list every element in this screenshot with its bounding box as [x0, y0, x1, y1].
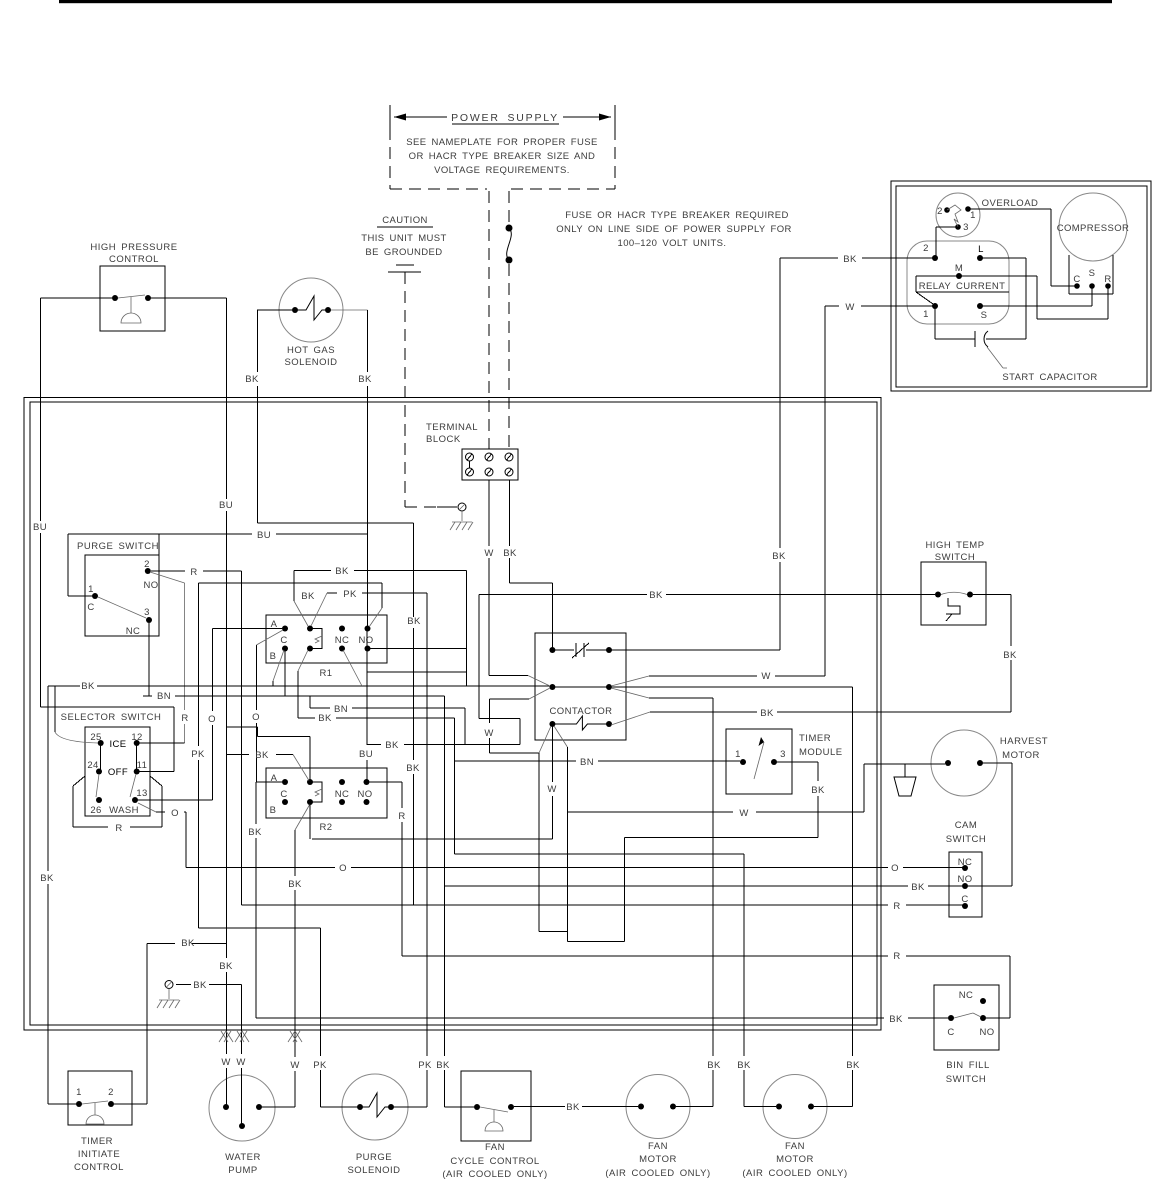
svg-text:MODULE: MODULE	[799, 747, 843, 758]
svg-text:C: C	[280, 635, 287, 646]
svg-text:BK: BK	[406, 763, 420, 774]
svg-text:BU: BU	[33, 522, 47, 533]
svg-text:S: S	[1089, 268, 1096, 279]
svg-text:SWITCH: SWITCH	[946, 1074, 986, 1085]
svg-text:NC: NC	[335, 789, 350, 800]
svg-text:BK: BK	[649, 590, 663, 601]
svg-text:BK: BK	[843, 254, 857, 265]
svg-text:1: 1	[88, 584, 94, 595]
svg-text:FUSE OR HACR TYPE BREAKER REQU: FUSE OR HACR TYPE BREAKER REQUIRED	[565, 210, 789, 221]
svg-text:CYCLE CONTROL: CYCLE CONTROL	[450, 1156, 539, 1167]
svg-text:COMPRESSOR: COMPRESSOR	[1057, 223, 1130, 234]
svg-text:R: R	[893, 901, 900, 912]
svg-text:THIS UNIT MUST: THIS UNIT MUST	[361, 233, 446, 244]
svg-text:W: W	[236, 1057, 245, 1068]
svg-text:1: 1	[735, 749, 741, 760]
svg-text:W: W	[484, 548, 493, 559]
svg-text:FAN: FAN	[648, 1141, 668, 1152]
svg-text:BU: BU	[257, 530, 271, 541]
svg-text:2: 2	[144, 559, 150, 570]
svg-text:BK: BK	[889, 1014, 903, 1025]
svg-text:O: O	[171, 808, 179, 819]
svg-text:2: 2	[923, 243, 929, 254]
svg-text:C: C	[961, 894, 968, 905]
svg-text:25: 25	[90, 732, 101, 743]
svg-text:(AIR COOLED ONLY): (AIR COOLED ONLY)	[605, 1168, 710, 1179]
svg-text:BK: BK	[301, 591, 315, 602]
svg-text:C: C	[280, 789, 287, 800]
svg-text:O: O	[339, 863, 347, 874]
svg-text:(AIR COOLED ONLY): (AIR COOLED ONLY)	[742, 1168, 847, 1179]
svg-text:BK: BK	[846, 1060, 860, 1071]
svg-text:BK: BK	[193, 980, 207, 991]
svg-text:L: L	[978, 244, 984, 255]
svg-text:W: W	[761, 671, 770, 682]
svg-text:BK: BK	[737, 1060, 751, 1071]
svg-text:11: 11	[137, 760, 148, 771]
svg-text:B: B	[270, 651, 277, 662]
svg-text:SELECTOR SWITCH: SELECTOR SWITCH	[61, 712, 162, 723]
svg-text:NO: NO	[357, 789, 372, 800]
svg-text:R: R	[181, 713, 188, 724]
svg-text:BK: BK	[248, 827, 262, 838]
svg-text:MOTOR: MOTOR	[639, 1154, 677, 1165]
svg-text:NO: NO	[358, 635, 373, 646]
svg-text:BK: BK	[255, 750, 269, 761]
svg-text:2: 2	[108, 1087, 114, 1098]
svg-text:3: 3	[963, 222, 969, 233]
svg-text:FAN: FAN	[785, 1141, 805, 1152]
svg-text:HIGH PRESSURE: HIGH PRESSURE	[90, 242, 177, 253]
svg-text:B: B	[270, 805, 277, 816]
svg-text:CONTACTOR: CONTACTOR	[550, 706, 613, 717]
svg-text:C: C	[87, 602, 94, 613]
svg-text:BU: BU	[359, 749, 373, 760]
svg-text:TIMER: TIMER	[799, 733, 831, 744]
svg-text:NC: NC	[126, 626, 141, 637]
svg-text:RELAY CURRENT: RELAY CURRENT	[919, 281, 1006, 292]
svg-text:W: W	[484, 728, 493, 739]
svg-text:12: 12	[131, 732, 142, 743]
svg-text:BE GROUNDED: BE GROUNDED	[365, 247, 442, 258]
svg-text:BK: BK	[219, 961, 233, 972]
svg-text:OFF: OFF	[108, 767, 128, 778]
svg-text:OVERLOAD: OVERLOAD	[982, 198, 1039, 209]
svg-text:BK: BK	[81, 681, 95, 692]
svg-text:3: 3	[780, 749, 786, 760]
svg-text:BK: BK	[772, 551, 786, 562]
svg-text:BK: BK	[1003, 650, 1017, 661]
svg-text:HARVEST: HARVEST	[1000, 736, 1048, 747]
svg-text:W: W	[290, 1060, 299, 1071]
svg-text:ICE: ICE	[109, 739, 126, 750]
svg-text:HOT GAS: HOT GAS	[287, 345, 335, 356]
svg-text:SEE NAMEPLATE FOR PROPER FUSE: SEE NAMEPLATE FOR PROPER FUSE	[406, 137, 598, 148]
svg-text:BN: BN	[157, 691, 171, 702]
svg-text:W: W	[221, 1057, 230, 1068]
svg-text:BK: BK	[245, 374, 259, 385]
svg-text:26: 26	[90, 805, 101, 816]
svg-text:OR HACR TYPE BREAKER SIZE AND: OR HACR TYPE BREAKER SIZE AND	[409, 151, 596, 162]
svg-text:BK: BK	[707, 1060, 721, 1071]
svg-text:W: W	[845, 302, 854, 313]
svg-text:SOLENOID: SOLENOID	[347, 1165, 400, 1176]
svg-text:MOTOR: MOTOR	[776, 1154, 814, 1165]
svg-text:TIMER: TIMER	[81, 1136, 113, 1147]
svg-text:C: C	[947, 1027, 954, 1038]
svg-text:POWER SUPPLY: POWER SUPPLY	[451, 112, 559, 124]
svg-text:NC: NC	[959, 990, 974, 1001]
svg-text:VOLTAGE REQUIREMENTS.: VOLTAGE REQUIREMENTS.	[434, 165, 570, 176]
svg-text:WATER: WATER	[225, 1152, 261, 1163]
svg-text:(AIR COOLED ONLY): (AIR COOLED ONLY)	[442, 1169, 547, 1180]
svg-text:SWITCH: SWITCH	[946, 834, 986, 845]
svg-text:R2: R2	[320, 822, 333, 833]
svg-text:R: R	[893, 951, 900, 962]
svg-text:PK: PK	[191, 749, 205, 760]
svg-text:NO: NO	[143, 580, 158, 591]
svg-text:PURGE: PURGE	[356, 1152, 392, 1163]
svg-text:24: 24	[87, 760, 98, 771]
svg-text:PUMP: PUMP	[228, 1165, 257, 1176]
svg-text:PK: PK	[343, 589, 357, 600]
svg-text:BK: BK	[811, 785, 825, 796]
svg-text:M: M	[955, 263, 963, 274]
svg-text:HIGH TEMP: HIGH TEMP	[925, 540, 984, 551]
svg-text:W: W	[547, 784, 556, 795]
svg-text:MOTOR: MOTOR	[1002, 750, 1040, 761]
svg-text:BN: BN	[580, 757, 594, 768]
svg-text:1: 1	[76, 1087, 82, 1098]
svg-text:2: 2	[937, 206, 943, 217]
svg-text:ONLY ON LINE SIDE OF POWER SUP: ONLY ON LINE SIDE OF POWER SUPPLY FOR	[556, 224, 792, 235]
svg-text:R: R	[190, 567, 197, 578]
svg-text:BK: BK	[181, 938, 195, 949]
svg-text:S: S	[981, 310, 988, 321]
svg-text:NC: NC	[958, 857, 973, 868]
svg-text:INITIATE: INITIATE	[78, 1149, 120, 1160]
svg-text:BIN FILL: BIN FILL	[946, 1060, 990, 1071]
svg-text:BK: BK	[436, 1060, 450, 1071]
svg-text:BK: BK	[385, 740, 399, 751]
svg-text:CONTROL: CONTROL	[74, 1162, 124, 1173]
svg-text:W: W	[739, 808, 748, 819]
svg-text:3: 3	[144, 607, 150, 618]
svg-text:CAM: CAM	[955, 820, 978, 831]
svg-text:START CAPACITOR: START CAPACITOR	[1002, 372, 1097, 383]
svg-text:BK: BK	[407, 616, 421, 627]
svg-text:BK: BK	[318, 713, 332, 724]
svg-text:BK: BK	[566, 1102, 580, 1113]
svg-text:R: R	[115, 823, 122, 834]
svg-text:BK: BK	[288, 879, 302, 890]
svg-text:BK: BK	[40, 873, 54, 884]
svg-text:BU: BU	[219, 500, 233, 511]
svg-text:PURGE SWITCH: PURGE SWITCH	[77, 541, 159, 552]
svg-text:NO: NO	[957, 874, 972, 885]
svg-text:SWITCH: SWITCH	[935, 552, 975, 563]
svg-text:BN: BN	[334, 704, 348, 715]
svg-text:1: 1	[970, 210, 976, 221]
svg-text:BK: BK	[760, 708, 774, 719]
svg-text:O: O	[208, 714, 216, 725]
svg-text:WASH: WASH	[109, 805, 139, 816]
svg-text:BLOCK: BLOCK	[426, 434, 461, 445]
svg-text:BK: BK	[911, 882, 925, 893]
svg-text:R: R	[398, 811, 405, 822]
svg-text:R1: R1	[320, 668, 333, 679]
svg-text:1: 1	[923, 309, 929, 320]
svg-text:BK: BK	[335, 566, 349, 577]
svg-text:13: 13	[136, 788, 147, 799]
svg-text:SOLENOID: SOLENOID	[284, 357, 337, 368]
svg-text:PK: PK	[313, 1060, 327, 1071]
svg-text:O: O	[252, 712, 260, 723]
svg-text:NC: NC	[335, 635, 350, 646]
svg-text:O: O	[891, 863, 899, 874]
svg-text:100–120 VOLT UNITS.: 100–120 VOLT UNITS.	[618, 238, 727, 249]
svg-text:BK: BK	[358, 374, 372, 385]
svg-text:BK: BK	[503, 548, 517, 559]
svg-text:CAUTION: CAUTION	[382, 215, 428, 226]
svg-text:CONTROL: CONTROL	[109, 254, 159, 265]
svg-text:FAN: FAN	[485, 1142, 505, 1153]
svg-text:TERMINAL: TERMINAL	[426, 422, 478, 433]
svg-text:PK: PK	[418, 1060, 432, 1071]
svg-text:NO: NO	[979, 1027, 994, 1038]
